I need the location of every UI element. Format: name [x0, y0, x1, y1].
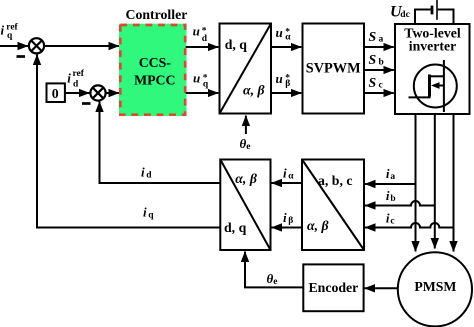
node theta-e label top	[240, 136, 251, 152]
svg-text:S: S	[369, 52, 377, 67]
svg-text:u: u	[193, 70, 200, 85]
svg-text:S: S	[369, 75, 377, 90]
wire dq block to SVPWM u-alpha*	[271, 46, 301, 48]
wire iq-ref input arrow	[0, 45, 28, 47]
svg-text:d, q: d, q	[225, 37, 248, 52]
svg-text:i: i	[283, 210, 287, 225]
svg-text:u: u	[193, 24, 200, 39]
block abc to alpha-beta transform	[302, 160, 364, 251]
svg-text:α, β: α, β	[307, 218, 329, 233]
node ia label	[386, 166, 396, 182]
svg-text:b: b	[390, 194, 395, 204]
node ud* label	[193, 24, 208, 45]
battery Udc	[432, 0, 437, 20]
svg-text:i: i	[67, 70, 71, 85]
svg-text:β: β	[288, 216, 293, 226]
node Sa label	[369, 29, 384, 45]
node id-ref label	[67, 69, 84, 89]
node i-alpha label	[283, 166, 294, 182]
wire phase a vertical	[415, 114, 417, 252]
node minus sign S2	[82, 102, 91, 105]
svg-text:i: i	[386, 211, 390, 226]
node Sb label	[369, 52, 384, 68]
svg-text:c: c	[379, 81, 383, 91]
node iq-ref input label	[1, 22, 19, 41]
wire dc link right	[438, 10, 454, 25]
wire ic tap with hops	[365, 223, 454, 228]
wire ia tap	[365, 183, 416, 185]
svg-text:b: b	[379, 58, 384, 68]
wire dq block to SVPWM u-beta*	[271, 92, 301, 94]
block two-level inverter	[395, 24, 470, 114]
svg-text:S: S	[369, 29, 377, 44]
svg-text:e: e	[246, 142, 250, 152]
block alpha-beta to dq transform	[220, 160, 270, 251]
wire encoder to alpha-beta dq block theta-e	[245, 252, 303, 288]
wire dc link left	[415, 10, 431, 25]
wire zero to S2	[65, 92, 90, 94]
wire controller to dq block uq*	[186, 92, 219, 94]
svg-text:a: a	[379, 35, 384, 45]
svg-text:q: q	[7, 31, 13, 41]
svg-text:i: i	[283, 166, 287, 181]
svg-text:dc: dc	[400, 10, 410, 20]
node u-beta* label	[276, 71, 291, 89]
wire phase c vertical	[453, 114, 455, 252]
wire i-alpha	[272, 182, 303, 184]
svg-text:a: a	[390, 172, 395, 182]
node id feedback label	[141, 165, 152, 181]
wire controller to dq block ud*	[186, 46, 219, 48]
node uq* label	[193, 70, 209, 89]
circle PMSM motor	[398, 252, 472, 326]
svg-text:MPCC: MPCC	[134, 72, 175, 87]
node Udc label	[390, 4, 410, 21]
node theta-e label bottom	[267, 271, 278, 287]
svg-text:CCS-: CCS-	[139, 55, 172, 70]
wire SVPWM to inverter Sb	[364, 69, 394, 71]
svg-text:Controller: Controller	[126, 7, 188, 22]
wire iq feedback	[37, 55, 220, 228]
svg-text:i: i	[386, 188, 390, 203]
svg-text:d: d	[73, 79, 79, 89]
svg-text:i: i	[141, 165, 145, 180]
wire SVPWM to inverter Sa	[364, 46, 394, 48]
svg-text:d, q: d, q	[224, 220, 247, 235]
wire S2 to controller	[106, 92, 119, 94]
block dq to alpha-beta transform	[220, 24, 272, 114]
block SVPWM	[303, 24, 365, 114]
wire phase b vertical	[434, 114, 436, 249]
svg-text:d: d	[146, 171, 152, 181]
wire id feedback	[100, 102, 221, 184]
wire ib tap with hop	[365, 201, 435, 206]
wire theta-e into dq block	[245, 116, 247, 134]
wire SVPWM to inverter Sc	[364, 92, 394, 94]
node minus sign S1	[17, 55, 26, 58]
wire PMSM to encoder	[365, 287, 398, 289]
svg-text:a, b, c: a, b, c	[318, 173, 353, 188]
svg-text:α, β: α, β	[235, 171, 257, 186]
svg-text:c: c	[390, 216, 394, 226]
svg-text:0: 0	[52, 86, 59, 101]
node zero block	[47, 83, 65, 102]
svg-text:α: α	[288, 171, 294, 181]
node iq feedback label	[143, 205, 154, 221]
svg-text:u: u	[276, 71, 283, 86]
svg-text:q: q	[148, 211, 154, 221]
wire i-beta	[272, 227, 303, 229]
svg-text:α: α	[285, 33, 291, 43]
svg-text:α, β: α, β	[243, 83, 265, 98]
node ic label	[386, 211, 395, 227]
node i-beta label	[283, 210, 293, 226]
summing junction S1	[29, 38, 44, 53]
svg-text:d: d	[202, 34, 208, 44]
svg-text:β: β	[285, 79, 290, 89]
transistor MOSFET symbol	[409, 60, 457, 112]
node ib label	[386, 188, 396, 204]
svg-text:Encoder: Encoder	[308, 280, 358, 295]
node u-alpha* label	[276, 25, 292, 43]
svg-text:q: q	[203, 79, 209, 89]
svg-text:ref: ref	[73, 69, 85, 79]
svg-text:i: i	[1, 23, 5, 38]
summing junction S2	[90, 85, 105, 100]
block Encoder	[303, 264, 363, 311]
svg-text:PMSM: PMSM	[414, 279, 456, 294]
wire S1 to controller	[44, 45, 119, 47]
svg-text:inverter: inverter	[409, 39, 457, 54]
svg-text:SVPWM: SVPWM	[306, 61, 361, 77]
svg-text:i: i	[386, 166, 390, 181]
node Sc label	[369, 75, 383, 91]
svg-text:u: u	[276, 25, 283, 40]
svg-text:e: e	[273, 277, 277, 287]
svg-text:i: i	[143, 205, 147, 220]
block CCS-MPCC controller	[119, 24, 187, 116]
